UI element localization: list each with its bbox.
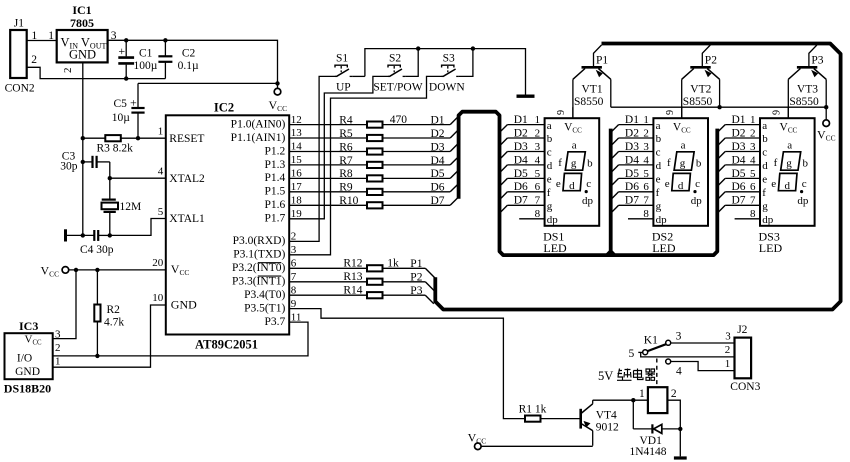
glyph qi	[646, 369, 656, 380]
svg-text:4: 4	[750, 154, 756, 166]
svg-text:P1.5: P1.5	[265, 186, 286, 198]
svg-text:3: 3	[535, 141, 541, 153]
svg-text:1: 1	[643, 114, 649, 126]
svg-text:4: 4	[535, 154, 541, 166]
svg-text:D2: D2	[625, 127, 639, 139]
resistor R9 470	[289, 191, 367, 193]
svg-text:9012: 9012	[596, 421, 619, 433]
wire D2 into bus	[450, 130, 458, 138]
data bus D1-D7 (thick)	[459, 112, 718, 255]
svg-text:R5: R5	[339, 128, 353, 140]
wire S2 to P1.7	[289, 76, 390, 218]
svg-text:1: 1	[750, 114, 756, 126]
end bar terminal	[64, 229, 67, 241]
svg-text:dp: dp	[547, 214, 559, 226]
resistor R3 8.2k	[83, 137, 106, 139]
svg-text:P1.2: P1.2	[265, 145, 286, 157]
wire D1 into bus	[450, 117, 458, 125]
resistor R7 470	[289, 164, 367, 166]
svg-text:SET/POW: SET/POW	[373, 81, 422, 93]
svg-text:S1: S1	[336, 52, 348, 64]
svg-text:10: 10	[152, 292, 164, 304]
svg-text:R13: R13	[343, 271, 362, 283]
svg-text:6: 6	[750, 181, 756, 193]
wire P3 into base bus	[425, 295, 434, 304]
svg-text:R9: R9	[339, 182, 353, 194]
transistor VT2 S8550	[682, 45, 720, 118]
svg-text:P1.4: P1.4	[265, 172, 286, 184]
regulator IC1 7805	[57, 30, 108, 62]
ground bar (switches)	[517, 94, 535, 97]
svg-text:P3.0(RXD): P3.0(RXD)	[233, 235, 286, 247]
transistor VT1 S8550	[573, 45, 611, 118]
glyph dian	[634, 369, 644, 380]
wire S2 right	[405, 49, 418, 77]
wire D4 to DS2 pin 4	[619, 164, 654, 166]
svg-text:1N4148: 1N4148	[630, 446, 667, 458]
pin 8 (DS3)	[735, 218, 760, 220]
svg-text:S8550: S8550	[574, 96, 604, 108]
capacitor C4 30p	[66, 234, 95, 236]
svg-text:g: g	[547, 201, 553, 213]
wire D3 into bus	[450, 144, 458, 152]
svg-text:XTAL1: XTAL1	[169, 213, 205, 225]
svg-text:GND: GND	[69, 48, 96, 62]
svg-text:D7: D7	[431, 195, 445, 207]
wire XTAL1	[110, 219, 166, 236]
connector J2 CON3	[735, 338, 752, 379]
wire D6 to DS3 pin 6	[725, 191, 760, 193]
svg-text:S8550: S8550	[789, 96, 819, 108]
svg-text:P3.7: P3.7	[265, 316, 286, 328]
svg-text:19: 19	[291, 208, 303, 220]
resistor R14 1k	[289, 294, 367, 296]
Vcc terminal (right)	[825, 107, 827, 120]
pin 9 Vcc (DS2)	[681, 107, 683, 118]
wire J1 pin2 to ground rail	[27, 67, 166, 78]
pin 8 (DS2)	[628, 218, 653, 220]
svg-text:LED: LED	[543, 241, 567, 255]
svg-text:30p: 30p	[60, 160, 78, 172]
svg-text:CON2: CON2	[5, 83, 35, 95]
svg-text:b: b	[656, 133, 662, 145]
svg-text:8: 8	[643, 208, 649, 220]
svg-text:a: a	[787, 139, 792, 151]
svg-text:100µ: 100µ	[134, 60, 158, 72]
svg-text:8: 8	[750, 208, 756, 220]
wire K1 common to J2 pin2	[641, 352, 735, 357]
wire relay pin2 to ground	[667, 400, 680, 456]
svg-text:2: 2	[725, 344, 731, 356]
svg-text:d: d	[656, 160, 662, 172]
svg-text:a: a	[547, 120, 552, 132]
svg-text:I/O: I/O	[17, 353, 32, 365]
svg-text:D1: D1	[625, 114, 639, 126]
svg-text:D5: D5	[514, 168, 528, 180]
svg-text:b: b	[762, 133, 768, 145]
Vcc terminal (bottom)	[475, 443, 482, 450]
svg-text:2: 2	[643, 127, 649, 139]
svg-text:1: 1	[639, 388, 645, 400]
svg-text:K1: K1	[644, 334, 658, 346]
svg-text:1: 1	[48, 30, 54, 42]
svg-text:a: a	[762, 120, 767, 132]
svg-text:g: g	[571, 157, 577, 169]
wire K1 NO to J2 pin3	[671, 342, 735, 344]
svg-text:P1: P1	[410, 258, 422, 270]
svg-text:c: c	[656, 147, 661, 159]
svg-text:D6: D6	[431, 182, 445, 194]
wire D4 into bus	[450, 157, 458, 165]
wire XTAL2	[110, 177, 166, 179]
svg-text:R14: R14	[343, 285, 362, 297]
svg-text:D3: D3	[514, 141, 528, 153]
svg-text:2: 2	[535, 127, 541, 139]
svg-text:D7: D7	[732, 195, 746, 207]
svg-text:1k: 1k	[387, 258, 399, 270]
svg-text:7: 7	[750, 195, 756, 207]
svg-text:VT4: VT4	[596, 409, 617, 421]
svg-text:5: 5	[750, 168, 756, 180]
wire D5 into bus	[450, 171, 458, 179]
svg-text:d: d	[678, 180, 684, 192]
svg-text:D3: D3	[625, 141, 639, 153]
display DS1 LED	[545, 118, 600, 226]
svg-text:S3: S3	[443, 52, 455, 64]
svg-text:D3: D3	[431, 141, 445, 153]
svg-text:f: f	[547, 187, 551, 199]
svg-text:f: f	[762, 187, 766, 199]
svg-text:20: 20	[152, 257, 164, 269]
wire D7 into bus	[450, 198, 458, 206]
svg-text:3: 3	[676, 331, 682, 343]
svg-text:VT3: VT3	[797, 84, 818, 96]
svg-text:d: d	[762, 160, 768, 172]
svg-text:c: c	[547, 147, 552, 159]
svg-text:R8: R8	[339, 168, 353, 180]
svg-text:P3: P3	[811, 54, 823, 66]
svg-text:C5: C5	[114, 98, 128, 110]
svg-text:7: 7	[643, 195, 649, 207]
svg-text:J2: J2	[737, 324, 747, 336]
ground bar (relay)	[674, 456, 687, 459]
wire IC3 GND to IC2 GND	[53, 305, 166, 367]
switch S3	[442, 65, 459, 76]
svg-text:P1.1(AIN1): P1.1(AIN1)	[231, 132, 286, 144]
svg-text:e: e	[762, 174, 767, 186]
ground vertical from IC1	[82, 62, 84, 235]
svg-text:VT2: VT2	[690, 84, 711, 96]
svg-text:g: g	[656, 201, 662, 213]
svg-text:9: 9	[556, 110, 567, 115]
resistor R8 470	[289, 177, 367, 179]
svg-text:d: d	[785, 180, 791, 192]
switch S2	[388, 65, 405, 76]
svg-text:4: 4	[676, 366, 682, 378]
svg-text:dp: dp	[797, 195, 809, 207]
resistor R4 470	[289, 124, 367, 126]
svg-text:e: e	[556, 178, 561, 190]
svg-text:IC2: IC2	[214, 100, 234, 114]
svg-text:D7: D7	[514, 195, 528, 207]
svg-text:D4: D4	[732, 154, 746, 166]
wire C3 to XTAL2	[109, 162, 111, 178]
wire D6 to DS1 pin 6	[507, 191, 544, 193]
svg-text:D4: D4	[625, 154, 639, 166]
svg-text:J1: J1	[14, 18, 24, 30]
svg-text:D2: D2	[732, 127, 746, 139]
sensor IC3 DS18B20	[5, 333, 53, 379]
svg-text:1: 1	[55, 356, 61, 368]
svg-text:R4: R4	[339, 114, 353, 126]
svg-text:7: 7	[535, 195, 541, 207]
svg-text:LED: LED	[759, 241, 783, 255]
pin 9 Vcc (DS3)	[787, 107, 789, 118]
svg-text:P1: P1	[596, 54, 608, 66]
wire K1 NC to J2 pin1	[671, 362, 735, 371]
wire D2 to DS2 pin 2	[619, 137, 654, 139]
svg-text:2: 2	[31, 54, 37, 66]
svg-text:2: 2	[62, 68, 74, 74]
svg-text:5: 5	[629, 348, 635, 360]
wire VT4 collector to relay	[593, 399, 648, 401]
svg-text:P1.3: P1.3	[265, 159, 286, 171]
wire D3 to DS1 pin 3	[507, 151, 544, 153]
svg-text:P1.7: P1.7	[265, 213, 286, 225]
wire D1 to DS3 pin 1	[725, 124, 760, 126]
wire D5 to DS3 pin 5	[725, 177, 760, 179]
display DS3 LED	[760, 118, 815, 226]
relay coil K1	[648, 387, 668, 413]
resistor R6 470	[289, 151, 367, 153]
svg-text:5: 5	[535, 168, 541, 180]
svg-text:c: c	[802, 178, 807, 190]
svg-text:S8550: S8550	[683, 96, 713, 108]
capacitor C1 100u	[125, 40, 127, 56]
wire Vcc to VT4 emitter	[481, 445, 593, 447]
wire P1 into base bus	[425, 268, 435, 278]
capacitor C5 10u	[137, 83, 139, 107]
svg-text:f: f	[667, 157, 671, 169]
svg-text:1: 1	[535, 114, 541, 126]
svg-text:C4 30p: C4 30p	[80, 244, 114, 256]
resistor R5 470	[289, 137, 367, 139]
svg-text:R2: R2	[107, 304, 121, 316]
svg-text:D1: D1	[732, 114, 746, 126]
wire D3 to DS2 pin 3	[619, 151, 654, 153]
svg-text:2: 2	[750, 127, 756, 139]
svg-text:3: 3	[725, 331, 731, 343]
svg-text:dp: dp	[656, 214, 668, 226]
svg-text:g: g	[786, 157, 792, 169]
svg-text:UP: UP	[336, 81, 351, 93]
svg-text:P2: P2	[410, 272, 422, 284]
svg-text:D6: D6	[514, 181, 528, 193]
svg-text:1: 1	[32, 30, 38, 42]
svg-text:D4: D4	[431, 155, 445, 167]
svg-text:DS18B20: DS18B20	[4, 382, 51, 396]
svg-text:e: e	[547, 174, 552, 186]
wire J1 pin1 to IC1	[27, 40, 57, 42]
svg-text:a: a	[681, 139, 686, 151]
svg-text:b: b	[587, 157, 593, 169]
svg-text:IC3: IC3	[19, 319, 38, 333]
svg-text:+: +	[130, 95, 137, 109]
svg-text:f: f	[656, 187, 660, 199]
svg-text:b: b	[547, 133, 553, 145]
svg-text:+: +	[118, 44, 125, 58]
wire D2 to DS1 pin 2	[507, 137, 544, 139]
svg-text:g: g	[680, 157, 686, 169]
resistor R2 4.7k	[96, 270, 98, 305]
glyph ji	[617, 369, 632, 381]
svg-text:D6: D6	[625, 181, 639, 193]
wire D5 to DS1 pin 5	[507, 177, 544, 179]
wire P3.5(T1) to R1	[289, 309, 525, 419]
svg-text:7805: 7805	[70, 16, 94, 30]
wire D1 to DS1 pin 1	[507, 124, 544, 126]
svg-text:R6: R6	[339, 141, 353, 153]
svg-text:R1 1k: R1 1k	[519, 403, 547, 415]
wire S1 right	[352, 75, 365, 77]
svg-text:P3.1(TXD): P3.1(TXD)	[233, 249, 285, 261]
switch rail to ground	[365, 49, 526, 95]
svg-text:c: c	[695, 178, 700, 190]
svg-text:9: 9	[772, 110, 783, 115]
pin 8 (DS1)	[519, 218, 544, 220]
svg-text:12M: 12M	[120, 201, 142, 213]
Vcc terminal (top)	[274, 88, 281, 95]
wire D1 to DS2 pin 1	[619, 124, 654, 126]
svg-text:D5: D5	[732, 168, 746, 180]
wire D4 to DS1 pin 4	[507, 164, 544, 166]
wire D4 to DS3 pin 4	[725, 164, 760, 166]
svg-text:P3.2(INT0): P3.2(INT0)	[232, 262, 286, 274]
svg-text:5V: 5V	[598, 369, 613, 383]
svg-text:4: 4	[643, 154, 649, 166]
wire IC3 I/O to IC2 P3.7	[53, 322, 308, 356]
svg-text:dp: dp	[762, 214, 774, 226]
svg-text:4.7k: 4.7k	[104, 317, 124, 329]
svg-text:R3 8.2k: R3 8.2k	[97, 143, 134, 155]
svg-text:2: 2	[671, 388, 677, 400]
svg-text:C1: C1	[139, 48, 153, 60]
resistor R13 1k	[289, 281, 367, 283]
svg-text:dp: dp	[582, 195, 594, 207]
display DS2 LED	[653, 118, 708, 226]
svg-text:P1.6: P1.6	[265, 199, 286, 211]
svg-text:1: 1	[158, 126, 164, 138]
resistor R12 1k	[289, 267, 367, 269]
pin 9 Vcc (DS1)	[572, 107, 574, 118]
svg-text:CON3: CON3	[730, 381, 760, 393]
wire IC3 pin3 to Vcc	[53, 270, 76, 339]
svg-text:P3.4(T0): P3.4(T0)	[244, 289, 285, 301]
svg-text:XTAL2: XTAL2	[169, 173, 205, 185]
resistor R1 1k	[525, 416, 541, 422]
wire D2 to DS3 pin 2	[725, 137, 760, 139]
svg-text:P3.5(T1): P3.5(T1)	[244, 302, 285, 314]
svg-text:e: e	[656, 174, 661, 186]
svg-text:D7: D7	[625, 195, 639, 207]
svg-text:P2: P2	[705, 54, 717, 66]
svg-text:c: c	[586, 178, 591, 190]
MCU IC2 AT89C2051	[166, 115, 289, 334]
wire D7 to DS3 pin 7	[725, 204, 760, 206]
wire C5 top to Vcc	[138, 82, 278, 84]
svg-text:D1: D1	[514, 114, 528, 126]
svg-text:e: e	[771, 178, 776, 190]
svg-text:C2: C2	[182, 48, 196, 60]
svg-text:D2: D2	[431, 128, 445, 140]
svg-text:a: a	[656, 120, 661, 132]
svg-text:8: 8	[535, 208, 541, 220]
capacitor C2 0.1u	[164, 40, 166, 56]
transistor VT3 S8550	[788, 45, 826, 118]
P1-P3 base bus (thick)	[435, 44, 840, 310]
transistor VT4 9012	[581, 400, 593, 446]
wire D7 to DS1 pin 7	[507, 204, 544, 206]
svg-text:470: 470	[390, 114, 408, 126]
svg-text:P3.3(INT1): P3.3(INT1)	[232, 276, 286, 288]
svg-text:dp: dp	[691, 195, 703, 207]
svg-text:3: 3	[643, 141, 649, 153]
svg-text:7: 7	[291, 271, 297, 283]
svg-text:D1: D1	[431, 114, 445, 126]
svg-text:D6: D6	[732, 181, 746, 193]
switch S1	[335, 65, 352, 76]
svg-text:P1.0(AIN0): P1.0(AIN0)	[231, 118, 286, 130]
capacitor C3 30p	[83, 161, 92, 163]
svg-text:10µ: 10µ	[112, 112, 131, 124]
svg-text:P3: P3	[410, 285, 422, 297]
svg-text:D4: D4	[514, 154, 528, 166]
svg-text:GND: GND	[171, 297, 197, 311]
svg-text:5: 5	[158, 206, 164, 218]
svg-text:RESET: RESET	[169, 133, 204, 145]
wire S1 to P3.0	[289, 76, 337, 241]
svg-text:VT1: VT1	[582, 84, 603, 96]
svg-text:b: b	[803, 157, 809, 169]
svg-text:3: 3	[750, 141, 756, 153]
svg-text:c: c	[762, 147, 767, 159]
wire Vcc rail to IC2 pin 20	[69, 269, 166, 271]
svg-text:5: 5	[643, 168, 649, 180]
wire D7 to DS2 pin 7	[619, 204, 654, 206]
svg-text:b: b	[696, 157, 702, 169]
svg-text:D5: D5	[431, 168, 445, 180]
wire S3 right	[459, 49, 473, 77]
svg-text:1: 1	[725, 358, 731, 370]
svg-text:f: f	[558, 157, 562, 169]
Vcc terminal (left)	[62, 267, 69, 274]
svg-text:D3: D3	[732, 141, 746, 153]
svg-text:e: e	[665, 178, 670, 190]
diode VD1 1N4148	[632, 400, 634, 429]
resistor R10 470	[289, 204, 367, 206]
svg-text:d: d	[569, 180, 575, 192]
wire S3 to P3.1	[289, 76, 443, 254]
bus trunk (DS2)	[607, 129, 614, 255]
wire D3 to DS3 pin 3	[725, 151, 760, 153]
svg-text:a: a	[572, 139, 577, 151]
crystal 12M	[109, 178, 111, 199]
svg-text:2: 2	[55, 342, 61, 354]
svg-text:S2: S2	[389, 52, 401, 64]
wire P2 into base bus	[425, 282, 435, 292]
svg-text:6: 6	[535, 181, 541, 193]
connector J1	[10, 30, 27, 78]
